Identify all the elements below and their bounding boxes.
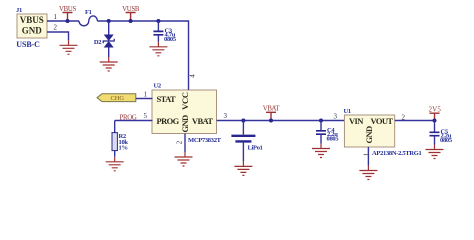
svg-text:PROG: PROG [157,116,180,126]
svg-text:3: 3 [334,113,338,121]
junction C4 [319,119,323,123]
svg-text:1%: 1% [119,145,128,152]
wire GND pin of U2 [184,134,186,153]
ground for D2 [100,57,118,71]
TVS diode D2 [103,35,114,48]
svg-text:F1: F1 [85,9,92,16]
svg-text:D2: D2 [94,39,101,46]
capacitor C3 [153,21,163,42]
svg-text:4: 4 [189,74,197,78]
fuse F1 [79,16,97,26]
svg-text:VBAT: VBAT [263,106,281,113]
resistor R2 [112,121,117,157]
svg-text:MCP73832T: MCP73832T [188,137,222,144]
svg-text:J1: J1 [16,7,22,14]
svg-text:2: 2 [54,24,58,32]
junction VBAT [269,119,273,123]
svg-text:5: 5 [144,112,148,120]
svg-text:0805: 0805 [164,36,177,43]
power port VBAT [263,106,281,121]
svg-text:USB-C: USB-C [16,40,40,49]
svg-text:0805: 0805 [440,137,453,144]
junction D2 [107,19,111,23]
ground for C5 [426,145,444,159]
ground for J1 pin2 [60,40,78,54]
svg-text:GND: GND [180,115,190,133]
ground for C4 [312,144,330,158]
ground for U1 [359,166,377,180]
svg-text:U1: U1 [344,108,351,115]
svg-text:0805: 0805 [327,136,340,143]
power port VUSB [122,6,140,21]
ground for battery [234,161,252,175]
svg-text:1: 1 [363,152,371,156]
wire PROG to resistor [115,120,153,122]
wire GND pin of U1 [367,147,369,166]
battery LiPo1 [231,121,255,162]
IC U2 body [152,90,217,134]
svg-text:VCC: VCC [180,92,190,110]
wire VOUT rail [395,120,435,122]
connector J1 body [17,14,47,38]
ground for R2 [106,157,124,171]
junction VBUS [66,19,70,23]
junction 2V5 / C5 [433,119,437,123]
ground for U2 [175,152,193,166]
wire D2 branch [108,21,110,57]
wire J1 pin1 to fuse [47,20,79,22]
svg-text:2: 2 [175,140,183,144]
svg-text:VBAT: VBAT [192,116,214,126]
wire VBAT rail [217,120,345,122]
svg-text:CHG: CHG [111,95,125,102]
junction C3 [156,19,160,23]
wire J1 pin2 to ground [47,32,69,40]
junction VUSB [129,19,133,23]
port CHG [97,94,136,102]
svg-text:2V5: 2V5 [429,107,442,114]
svg-text:3: 3 [224,112,228,120]
svg-text:1: 1 [144,91,148,99]
ground for C3 [149,42,167,56]
svg-text:AP2138N-2.5TRG1: AP2138N-2.5TRG1 [372,150,422,157]
svg-text:STAT: STAT [157,94,176,104]
IC U1 body [344,115,394,147]
svg-text:VBUS: VBUS [20,15,44,25]
power port VBUS [59,6,76,21]
svg-text:VOUT: VOUT [371,116,394,126]
junction battery [241,119,245,123]
svg-text:GND: GND [22,26,43,36]
svg-text:GND: GND [364,126,374,144]
svg-text:U2: U2 [154,83,161,90]
svg-text:LiPo1: LiPo1 [248,145,263,152]
svg-text:VIN: VIN [349,116,364,126]
capacitor C4 [316,121,326,144]
wire CHG to STAT pin [136,98,153,100]
wire VCC pin of U2 [188,20,190,90]
power port 2V5 [429,107,442,121]
capacitor C5 [430,121,440,145]
svg-text:1: 1 [54,13,58,21]
wire fuse to corner [97,20,188,22]
